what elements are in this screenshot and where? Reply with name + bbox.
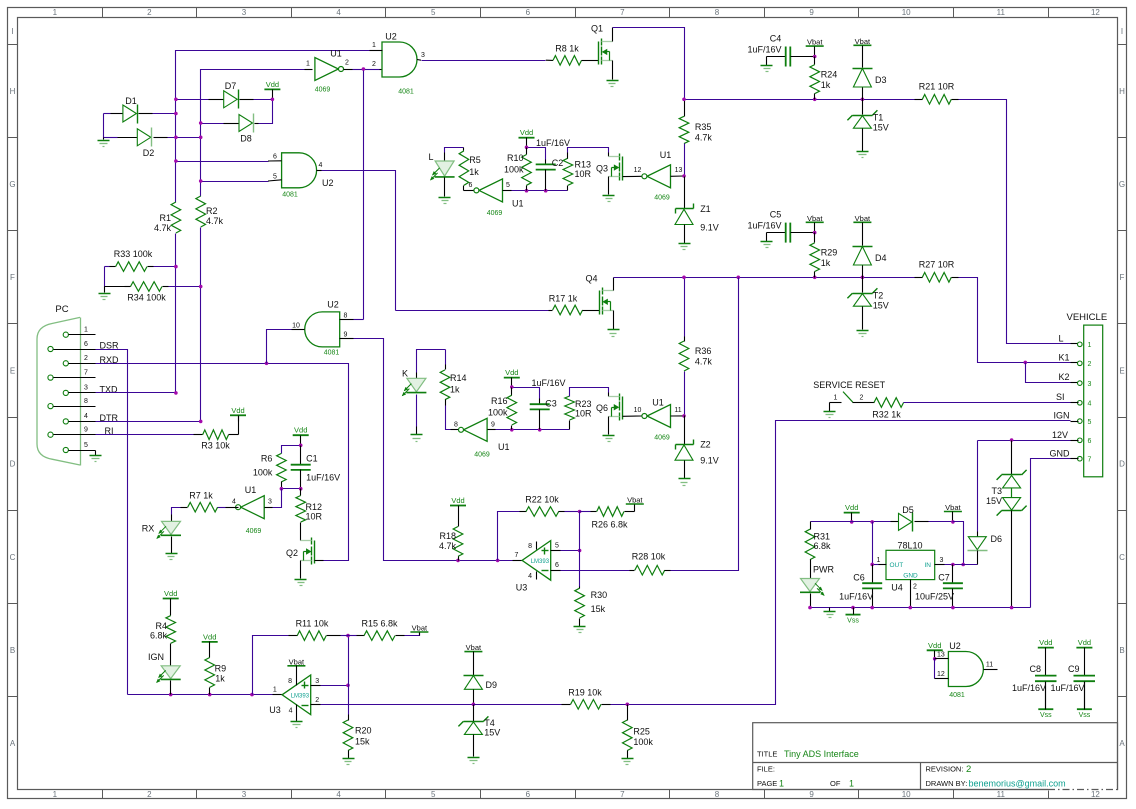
svg-text:1uF/16V: 1uF/16V bbox=[536, 138, 570, 148]
ground at led K bbox=[416, 395, 418, 427]
resistor R35 bbox=[684, 100, 686, 117]
svg-text:U1: U1 bbox=[660, 150, 672, 160]
svg-text:D2: D2 bbox=[143, 148, 155, 158]
svg-text:C6: C6 bbox=[853, 573, 865, 583]
resistor R10 bbox=[526, 148, 528, 155]
svg-text:4: 4 bbox=[336, 8, 341, 17]
svg-text:A: A bbox=[10, 739, 16, 748]
svg-text:10: 10 bbox=[292, 323, 300, 330]
svg-text:6: 6 bbox=[526, 790, 531, 799]
svg-text:1: 1 bbox=[372, 42, 376, 49]
resistor R16 bbox=[511, 388, 513, 396]
svg-text:4: 4 bbox=[1088, 401, 1092, 408]
svg-text:2: 2 bbox=[147, 8, 152, 17]
svg-text:IGN: IGN bbox=[148, 652, 164, 662]
svg-text:1uF/16V: 1uF/16V bbox=[1012, 683, 1046, 693]
comparator lower rail bbox=[128, 694, 273, 696]
power symbol Vss at supply rail bbox=[846, 614, 861, 616]
svg-text:U1: U1 bbox=[652, 398, 664, 408]
resistor R6 bbox=[277, 453, 287, 482]
svg-text:Vbat: Vbat bbox=[945, 503, 961, 512]
svg-text:12: 12 bbox=[1091, 8, 1100, 17]
svg-text:IN: IN bbox=[925, 562, 932, 569]
svg-text:8: 8 bbox=[344, 313, 348, 320]
svg-text:K1: K1 bbox=[1058, 353, 1069, 363]
ground at T4 bbox=[468, 757, 480, 759]
svg-text:B: B bbox=[10, 646, 15, 655]
inverter U1 gate3 (pins 5,6) facing left bbox=[464, 190, 474, 192]
svg-text:VEHICLE: VEHICLE bbox=[1067, 312, 1108, 323]
svg-text:3: 3 bbox=[315, 678, 319, 685]
svg-text:Vdd: Vdd bbox=[164, 589, 177, 598]
led IGN bbox=[161, 666, 180, 679]
U4 pin 1 wire to Vdd rail bbox=[879, 564, 887, 566]
resistor R15 bbox=[349, 635, 357, 637]
svg-text:R5: R5 bbox=[469, 155, 481, 165]
svg-text:2: 2 bbox=[84, 355, 88, 362]
svg-text:Vbat: Vbat bbox=[807, 38, 823, 47]
svg-text:C: C bbox=[10, 553, 16, 562]
switch S1 service reset bbox=[830, 402, 842, 404]
svg-text:C8: C8 bbox=[1029, 664, 1041, 674]
svg-text:PWR: PWR bbox=[813, 565, 834, 575]
svg-text:F: F bbox=[1120, 273, 1125, 282]
svg-text:C1: C1 bbox=[306, 454, 318, 464]
resistor R17 bbox=[396, 310, 549, 312]
transistor Q4 bbox=[585, 310, 600, 312]
U3-2 pin 4 lead to ground bbox=[296, 705, 298, 722]
inverter U1 gate4 (pins 8,9) facing left bbox=[451, 429, 459, 431]
wire R21 to VEHICLE L pin bbox=[959, 100, 1071, 344]
ground at R25 bbox=[622, 758, 634, 760]
svg-text:1uF/16V: 1uF/16V bbox=[306, 473, 340, 483]
svg-text:1k: 1k bbox=[450, 385, 460, 395]
ground at Z2 bbox=[679, 478, 691, 480]
wire U1 out to U2 pin 2 and down to U2 pin 8 bbox=[364, 69, 380, 71]
svg-text:6: 6 bbox=[84, 341, 88, 348]
svg-text:2: 2 bbox=[147, 790, 152, 799]
transistor Q3 (mirrored) bbox=[608, 153, 610, 157]
wire Vbat corner down to regulator input bbox=[953, 522, 964, 565]
resistor R23 bbox=[569, 421, 571, 430]
transil T1 bbox=[862, 100, 864, 115]
svg-text:R31: R31 bbox=[814, 532, 831, 542]
ground at C5 bbox=[766, 233, 768, 242]
capacitor C5 bbox=[767, 232, 786, 234]
svg-text:Vdd: Vdd bbox=[451, 496, 464, 505]
svg-text:RX: RX bbox=[142, 524, 155, 534]
svg-text:R16: R16 bbox=[491, 396, 508, 406]
resistor R13 bbox=[567, 186, 569, 191]
svg-text:4: 4 bbox=[289, 708, 293, 715]
svg-text:D: D bbox=[1119, 460, 1125, 469]
svg-text:R2: R2 bbox=[206, 206, 218, 216]
resistor R30 bbox=[579, 587, 581, 589]
svg-text:3: 3 bbox=[84, 385, 88, 392]
svg-text:U4: U4 bbox=[891, 583, 903, 593]
wire D1 anode down to D2/gnd bbox=[103, 114, 105, 138]
svg-text:U2: U2 bbox=[327, 300, 339, 310]
svg-text:10R: 10R bbox=[306, 512, 323, 522]
wire R2 bottom to DTR bbox=[200, 228, 202, 422]
diode D9 bbox=[464, 675, 484, 677]
svg-text:2: 2 bbox=[860, 394, 864, 401]
svg-text:Vbat: Vbat bbox=[855, 37, 871, 46]
svg-text:GND: GND bbox=[903, 573, 918, 580]
svg-text:1uF/16V: 1uF/16V bbox=[1050, 683, 1084, 693]
svg-text:11: 11 bbox=[997, 790, 1006, 799]
svg-text:R18: R18 bbox=[439, 531, 456, 541]
ground at C4 bbox=[766, 57, 768, 66]
inverter U1 gate5 (pins 10,11) facing left bbox=[623, 415, 642, 417]
svg-text:R25: R25 bbox=[633, 727, 650, 737]
svg-text:2: 2 bbox=[345, 60, 349, 67]
svg-text:4: 4 bbox=[319, 162, 323, 169]
diode D7 bbox=[176, 99, 209, 101]
svg-text:4069: 4069 bbox=[487, 210, 503, 217]
svg-text:9: 9 bbox=[809, 8, 814, 17]
svg-text:FILE:: FILE: bbox=[757, 765, 775, 774]
svg-text:T3: T3 bbox=[991, 486, 1002, 496]
svg-text:LM393: LM393 bbox=[531, 559, 550, 565]
PC pins left column bbox=[48, 346, 53, 351]
U3-2 pin 2 wire bbox=[311, 704, 321, 706]
junction dots upper-left bbox=[174, 98, 178, 102]
svg-text:Vbat: Vbat bbox=[807, 214, 823, 223]
svg-text:7: 7 bbox=[1088, 457, 1092, 464]
svg-text:D4: D4 bbox=[875, 253, 887, 263]
opamp U3 half B (pins 1,2,3) facing left bbox=[273, 694, 283, 696]
svg-text:R1: R1 bbox=[159, 213, 171, 223]
resistor R25 bbox=[627, 705, 629, 721]
wire 12V down to D6 bbox=[977, 441, 979, 532]
wire 12V line bbox=[978, 440, 1071, 442]
svg-text:78L10: 78L10 bbox=[897, 541, 922, 551]
svg-text:12: 12 bbox=[1091, 790, 1100, 799]
resistor R4 bbox=[166, 616, 176, 644]
ground rail of supply section bbox=[811, 607, 1031, 609]
svg-text:Vbat: Vbat bbox=[289, 657, 305, 666]
resistor R11 bbox=[289, 635, 298, 637]
svg-text:7: 7 bbox=[620, 8, 625, 17]
svg-text:1: 1 bbox=[53, 8, 58, 17]
svg-text:Q1: Q1 bbox=[591, 24, 603, 34]
svg-text:2: 2 bbox=[315, 697, 319, 704]
ground at Q6 source bbox=[608, 417, 610, 435]
U4 pin 2 wire to ground rail bbox=[910, 580, 912, 608]
transil T4 bbox=[473, 705, 475, 722]
svg-text:C: C bbox=[1119, 553, 1125, 562]
wire DSR bbox=[96, 350, 128, 695]
wire GND line to vehicle pin 7 bbox=[1031, 459, 1071, 608]
svg-text:C3: C3 bbox=[545, 399, 557, 409]
svg-text:9: 9 bbox=[84, 427, 88, 434]
svg-text:4081: 4081 bbox=[324, 350, 340, 357]
svg-text:10R: 10R bbox=[575, 409, 592, 419]
wire U2-C pin 9 down to comparator rail bbox=[340, 338, 354, 340]
svg-text:Vdd: Vdd bbox=[231, 406, 244, 415]
svg-text:9.1V: 9.1V bbox=[700, 223, 719, 233]
svg-text:D1: D1 bbox=[125, 96, 137, 106]
diode D3 bbox=[853, 68, 873, 70]
svg-text:6: 6 bbox=[273, 153, 277, 160]
wire Vdd node to C3 bbox=[512, 388, 540, 399]
svg-text:4.7k: 4.7k bbox=[439, 541, 457, 551]
resistor R20 bbox=[348, 715, 350, 721]
svg-text:D5: D5 bbox=[902, 505, 914, 515]
wire R22/R26 node down to pin5 node and R30 bbox=[579, 512, 581, 587]
svg-text:Vdd: Vdd bbox=[203, 632, 216, 641]
svg-text:7: 7 bbox=[84, 369, 88, 376]
U2-D output stub bbox=[984, 669, 998, 671]
svg-text:K2: K2 bbox=[1058, 372, 1069, 382]
svg-text:Vdd: Vdd bbox=[845, 503, 858, 512]
svg-text:PC: PC bbox=[55, 304, 68, 315]
svg-text:1uF/16V: 1uF/16V bbox=[839, 592, 873, 602]
svg-text:13: 13 bbox=[675, 167, 683, 174]
svg-text:C2: C2 bbox=[552, 158, 564, 168]
capacitor C1 bbox=[300, 446, 302, 465]
resistor R22 bbox=[498, 512, 520, 561]
svg-text:R8 1k: R8 1k bbox=[555, 44, 579, 54]
svg-text:5: 5 bbox=[431, 8, 436, 17]
svg-text:1: 1 bbox=[849, 779, 854, 789]
svg-text:1k: 1k bbox=[821, 258, 831, 268]
svg-text:100k: 100k bbox=[633, 737, 653, 747]
svg-text:R17 1k: R17 1k bbox=[549, 294, 578, 304]
svg-text:4069: 4069 bbox=[315, 87, 331, 94]
wire TXD bbox=[96, 392, 176, 394]
svg-text:L: L bbox=[428, 152, 433, 162]
svg-text:G: G bbox=[1119, 180, 1125, 189]
svg-text:D7: D7 bbox=[225, 81, 237, 91]
svg-text:1k: 1k bbox=[821, 80, 831, 90]
svg-text:3: 3 bbox=[268, 499, 272, 506]
ground at Z1 bbox=[679, 243, 691, 245]
svg-text:5: 5 bbox=[506, 182, 510, 189]
and-gate U2 gate B (pins 6,5,4) bbox=[282, 153, 317, 188]
resistor R7 bbox=[218, 507, 226, 509]
resistor R29 bbox=[814, 233, 816, 243]
svg-text:U1: U1 bbox=[245, 485, 257, 495]
svg-text:1uF/16V: 1uF/16V bbox=[532, 378, 566, 388]
svg-text:Vdd: Vdd bbox=[1039, 638, 1052, 647]
svg-text:D6: D6 bbox=[991, 534, 1003, 544]
diode D2 bbox=[104, 137, 118, 139]
svg-text:TITLE: TITLE bbox=[757, 750, 777, 759]
svg-text:3: 3 bbox=[421, 52, 425, 59]
svg-text:U3: U3 bbox=[516, 583, 528, 593]
U3-2 pin 3 wire bbox=[311, 685, 321, 687]
svg-text:D9: D9 bbox=[486, 680, 498, 690]
svg-text:1: 1 bbox=[834, 394, 838, 401]
U3-1 inverting pin 6 wire bbox=[551, 570, 561, 572]
svg-text:4.7k: 4.7k bbox=[695, 133, 713, 143]
svg-text:4.7k: 4.7k bbox=[206, 216, 224, 226]
svg-text:OUT: OUT bbox=[890, 562, 904, 569]
svg-text:R9: R9 bbox=[215, 664, 227, 674]
svg-text:3: 3 bbox=[1088, 381, 1092, 388]
wire U2-D pins 13/12 tie bbox=[935, 658, 949, 660]
svg-text:K: K bbox=[402, 369, 408, 379]
wire K2 branch bbox=[1026, 363, 1071, 383]
svg-text:5: 5 bbox=[555, 543, 559, 550]
inverter U1 gate1 (pins 1,2) bbox=[305, 69, 313, 71]
svg-text:15V: 15V bbox=[873, 301, 889, 311]
svg-text:2: 2 bbox=[913, 584, 917, 591]
svg-text:2: 2 bbox=[1088, 361, 1092, 368]
svg-text:100k: 100k bbox=[253, 468, 273, 478]
svg-text:DRAWN BY:: DRAWN BY: bbox=[926, 779, 968, 788]
opamp U3 half A (pins 5,6,7) bbox=[513, 560, 523, 562]
svg-text:T4: T4 bbox=[484, 718, 495, 728]
transistor Q6 (mirrored) bbox=[608, 393, 610, 397]
svg-text:R30: R30 bbox=[591, 590, 608, 600]
svg-text:L: L bbox=[1058, 334, 1063, 344]
wire Q4 drain to bus2 bbox=[613, 278, 615, 291]
wire Vdd node to C2 bbox=[527, 148, 546, 160]
wire R27 to VEHICLE K1/K2 bbox=[959, 278, 1071, 363]
resistor R9 bbox=[205, 658, 215, 688]
ground at Q3 source bbox=[608, 177, 610, 195]
svg-text:9: 9 bbox=[344, 331, 348, 338]
diode D1 bbox=[104, 113, 111, 115]
resistor R1 bbox=[171, 202, 181, 233]
resistor R33 bbox=[105, 266, 110, 268]
wire R6/C1 bottom junction bbox=[282, 488, 301, 490]
svg-text:R27 10R: R27 10R bbox=[919, 260, 955, 270]
svg-text:1: 1 bbox=[53, 790, 58, 799]
svg-text:R6: R6 bbox=[261, 454, 273, 464]
wire bus1 bbox=[685, 99, 915, 101]
svg-text:9: 9 bbox=[491, 421, 495, 428]
svg-text:U2: U2 bbox=[949, 641, 961, 651]
svg-text:15k: 15k bbox=[591, 604, 606, 614]
svg-text:8: 8 bbox=[288, 678, 292, 685]
svg-text:R20: R20 bbox=[355, 726, 372, 736]
svg-text:I: I bbox=[1121, 27, 1123, 36]
wire R13 top to Q3 drain bbox=[568, 148, 609, 153]
svg-text:Q2: Q2 bbox=[286, 548, 298, 558]
PC pins right column bbox=[63, 332, 68, 337]
svg-text:6: 6 bbox=[469, 182, 473, 189]
svg-text:U2: U2 bbox=[322, 178, 334, 188]
svg-text:15k: 15k bbox=[355, 737, 370, 747]
svg-text:T1: T1 bbox=[873, 113, 884, 123]
wire rail corner up to R11 bbox=[253, 636, 289, 695]
svg-text:R3 10k: R3 10k bbox=[201, 441, 230, 451]
svg-text:1k: 1k bbox=[215, 674, 225, 684]
svg-text:R11 10k: R11 10k bbox=[296, 619, 329, 629]
svg-text:Vdd: Vdd bbox=[294, 426, 307, 435]
capacitor C6 bbox=[872, 565, 874, 584]
wire net U1 input / R2 vertical bbox=[201, 70, 305, 197]
wire Vdd node to R6 bbox=[282, 446, 301, 454]
resistor R32 bbox=[860, 402, 875, 404]
svg-text:Vbat: Vbat bbox=[855, 214, 871, 223]
svg-text:10uF/25V: 10uF/25V bbox=[915, 592, 954, 602]
svg-text:10: 10 bbox=[902, 8, 911, 17]
svg-text:13: 13 bbox=[937, 651, 945, 658]
svg-text:R33 100k: R33 100k bbox=[114, 249, 153, 259]
wire R11/R15 node down to pin3 and R20 bbox=[348, 636, 350, 715]
svg-text:B: B bbox=[1119, 646, 1124, 655]
svg-text:8: 8 bbox=[528, 543, 532, 550]
wire U2-C pin 8 to U1 out bbox=[340, 319, 354, 321]
wire RXD bbox=[96, 364, 349, 561]
svg-text:SERVICE RESET: SERVICE RESET bbox=[813, 380, 885, 390]
svg-text:OF: OF bbox=[830, 779, 841, 788]
wire U2-B out to R17 corner bbox=[317, 170, 322, 172]
wire U1-3 input line to R10/C2/R13 bbox=[512, 190, 568, 192]
wire U1-4 input line to R16/C3/R23 bbox=[496, 429, 570, 431]
svg-text:9: 9 bbox=[809, 790, 814, 799]
svg-text:10: 10 bbox=[634, 407, 642, 414]
svg-text:10R: 10R bbox=[575, 169, 592, 179]
svg-text:10: 10 bbox=[902, 790, 911, 799]
U3-1 pin 4 tick bbox=[536, 572, 538, 580]
svg-text:4.7k: 4.7k bbox=[154, 223, 172, 233]
svg-text:4081: 4081 bbox=[949, 692, 965, 699]
svg-text:IGN: IGN bbox=[1053, 411, 1069, 421]
wire DTR bbox=[96, 421, 201, 423]
resistor R8 bbox=[546, 59, 553, 61]
title block bbox=[753, 723, 1118, 790]
U3-1 output pin 5 wire bbox=[551, 550, 561, 552]
resistor R36 bbox=[684, 278, 686, 337]
svg-text:D3: D3 bbox=[875, 75, 887, 85]
svg-text:4: 4 bbox=[528, 573, 532, 580]
svg-text:Q3: Q3 bbox=[596, 164, 608, 174]
svg-text:4081: 4081 bbox=[282, 192, 298, 199]
diode D5 bbox=[891, 521, 899, 523]
svg-text:Vdd: Vdd bbox=[928, 641, 941, 650]
ground at R33/R34 bbox=[104, 287, 106, 293]
svg-text:E: E bbox=[1119, 366, 1124, 375]
svg-text:R10: R10 bbox=[507, 153, 524, 163]
inverter U1 gate2 (pins 3,4) facing left bbox=[241, 496, 265, 519]
wire net to U2 pin 1 bbox=[176, 51, 383, 203]
svg-text:4069: 4069 bbox=[246, 528, 262, 535]
diode D6 bbox=[977, 532, 979, 537]
svg-text:R35: R35 bbox=[695, 122, 712, 132]
svg-text:4069: 4069 bbox=[654, 195, 670, 202]
resistor R34 bbox=[104, 267, 106, 287]
svg-text:R29: R29 bbox=[821, 248, 838, 258]
svg-text:5: 5 bbox=[273, 174, 277, 181]
transistor Q1 bbox=[585, 60, 599, 62]
ground at led L bbox=[444, 178, 446, 197]
svg-text:11: 11 bbox=[674, 407, 681, 414]
resistor R21 bbox=[915, 99, 923, 101]
svg-text:100k: 100k bbox=[488, 408, 508, 418]
svg-text:benemorius@gmail.com: benemorius@gmail.com bbox=[969, 779, 1066, 789]
svg-text:Z1: Z1 bbox=[700, 204, 711, 214]
svg-text:5: 5 bbox=[84, 442, 88, 449]
svg-text:Vdd: Vdd bbox=[505, 368, 518, 377]
svg-text:R26 6.8k: R26 6.8k bbox=[591, 520, 628, 530]
svg-text:R32 1k: R32 1k bbox=[872, 410, 901, 420]
svg-text:U1: U1 bbox=[498, 442, 510, 452]
svg-text:H: H bbox=[10, 87, 16, 96]
svg-text:D8: D8 bbox=[240, 134, 252, 144]
U3-1 pin 8 tick bbox=[536, 542, 538, 550]
svg-text:12V: 12V bbox=[1052, 430, 1068, 440]
wire Q1 drain to bus bbox=[612, 28, 614, 42]
svg-text:U2: U2 bbox=[385, 32, 397, 42]
resistor R5 bbox=[463, 148, 465, 151]
ground at supply rail bbox=[829, 608, 831, 612]
